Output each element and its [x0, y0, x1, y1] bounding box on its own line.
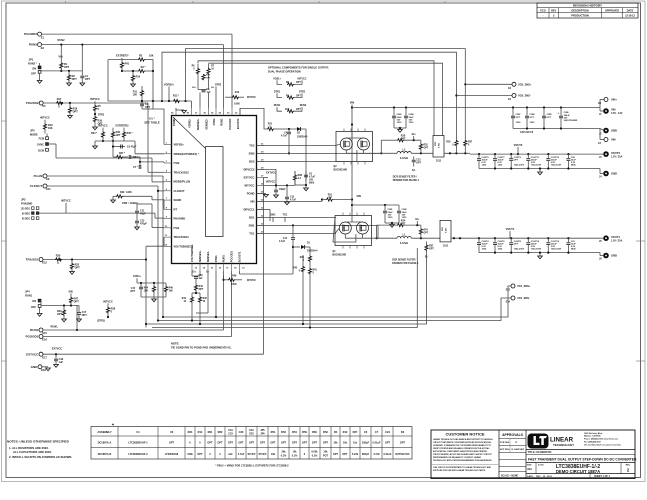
pin 35 DTR2 — [215, 108, 217, 116]
svg-text:680pF: 680pF — [362, 453, 370, 456]
wire vout2 gnd rail — [479, 168, 600, 170]
svg-text:PGND: PGND — [172, 118, 176, 126]
svg-text:RUN1: RUN1 — [50, 324, 58, 328]
resistor R36 OPT — [112, 128, 114, 132]
resistor R46 10K — [165, 283, 167, 286]
svg-text:GND: GND — [611, 129, 617, 133]
resistor R11 10K — [141, 86, 143, 90]
svg-text:DRVCC1: DRVCC1 — [243, 208, 255, 212]
svg-text:CUSTOMER NOTICE: CUSTOMER NOTICE — [445, 432, 484, 437]
capacitor COUT9 — [510, 154, 512, 158]
ground C10 — [285, 202, 290, 205]
pin 37 SENSE2+ — [199, 108, 201, 116]
svg-text:R34 *: R34 * — [91, 132, 97, 135]
capacitor C5 47pF — [118, 146, 125, 148]
svg-text:D3: D3 — [401, 430, 405, 434]
svg-text:0.1%: 0.1% — [312, 455, 318, 458]
svg-text:4.7uF: 4.7uF — [309, 176, 316, 179]
pin 6 CLKOUT — [164, 190, 172, 192]
wire TRACKSS1 — [43, 259, 146, 261]
wire bus W1 VO2 SNS+ — [186, 49, 466, 140]
svg-text:SENSE1+: SENSE1+ — [198, 250, 202, 262]
diode D1 CMDSH-4 — [301, 245, 305, 249]
svg-text:10k: 10k — [271, 453, 276, 456]
diode D2 CMDSH-4 — [297, 127, 301, 131]
svg-text:C7: C7 — [375, 430, 379, 434]
resistor R37b OPT — [426, 242, 428, 245]
svg-text:Fax: (408)434-0507: Fax: (408)434-0507 — [584, 441, 601, 444]
svg-text:APPLICATION. COMPONENT SUBSTI: APPLICATION. COMPONENT SUBSTITUTION AND … — [433, 450, 488, 453]
svg-text:LT6004HS8: LT6004HS8 — [165, 453, 179, 456]
svg-text:OPT: OPT — [57, 313, 63, 316]
svg-text:EXTVCC: EXTVCC — [26, 352, 39, 356]
pin 12 VOUTSENSE1+ — [164, 245, 172, 247]
resistor R7 10 — [208, 64, 210, 68]
pin 8 RT — [164, 208, 172, 210]
svg-text:R46: R46 — [169, 286, 174, 289]
svg-text:ASSEMBLY: ASSEMBLY — [97, 430, 111, 434]
svg-text:C22: C22 — [416, 159, 421, 161]
svg-text:OPT: OPT — [292, 441, 298, 444]
pin 7 SGND — [164, 199, 172, 201]
svg-text:R35: R35 — [446, 141, 451, 143]
svg-text:TRA/SS1: TRA/SS1 — [26, 258, 39, 262]
wire TG2 — [257, 144, 337, 146]
svg-text:DIVIDER FOR PHASE 1: DIVIDER FOR PHASE 1 — [392, 262, 419, 265]
zone tick top — [65, 1, 67, 3]
terminal VOUT1 — [600, 237, 603, 239]
capacitor CIN1 22uF — [384, 205, 386, 211]
ground R49 — [62, 319, 67, 322]
svg-text:S1+: S1+ — [415, 219, 420, 221]
svg-text:OPT: OPT — [116, 134, 121, 137]
svg-text:PRODUCTION: PRODUCTION — [571, 13, 589, 17]
svg-text:OPT: OPT — [514, 244, 519, 246]
resistor R20 — [55, 258, 62, 261]
wire SW1 — [257, 224, 294, 226]
svg-text:INTVCC: INTVCC — [103, 299, 113, 303]
svg-text:R37: R37 — [429, 245, 434, 247]
svg-text:4.7uF: 4.7uF — [281, 134, 288, 137]
svg-text:R26: R26 — [300, 257, 305, 259]
svg-text:APPROVALS: APPROVALS — [502, 433, 524, 437]
svg-text:INTVCC: INTVCC — [247, 96, 256, 99]
svg-text:1210: 1210 — [388, 217, 394, 219]
svg-text:E13: E13 — [506, 289, 511, 292]
svg-text:E15: E15 — [42, 331, 47, 335]
svg-text:U1: U1 — [136, 430, 140, 434]
wire DRVCC1 — [257, 208, 271, 210]
capacitor CIN7 OPT — [512, 108, 514, 116]
svg-text:S1-: S1- — [425, 257, 429, 259]
svg-text:1210: 1210 — [409, 122, 415, 124]
svg-text:R44: R44 — [144, 286, 149, 289]
ground C1 — [80, 83, 85, 86]
capacitor C22 OPT — [413, 157, 415, 160]
svg-text:INTVCC: INTVCC — [247, 279, 256, 282]
resistor R2 OPT — [68, 71, 70, 75]
capacitor C4 4.7uF boost2 — [287, 128, 306, 130]
pin 4 TRACK/SS2 — [164, 171, 172, 173]
svg-text:PGOOD2: PGOOD2 — [228, 118, 232, 130]
svg-text:R15: R15 — [285, 109, 290, 111]
capacitor C1 OPT — [81, 45, 83, 76]
svg-text:DIVIDER FOR PHASE 2: DIVIDER FOR PHASE 2 — [393, 179, 420, 182]
svg-text:EXTREFD2: EXTREFD2 — [115, 125, 129, 128]
svg-text:OFF: OFF — [31, 306, 36, 309]
svg-text:10K: 10K — [169, 290, 174, 292]
svg-text:EXTVCC: EXTVCC — [266, 172, 276, 175]
svg-text:TRACK/SS2: TRACK/SS2 — [174, 170, 190, 174]
svg-text:* PIN 2 = VRNG FOR LTC3838-1,: * PIN 2 = VRNG FOR LTC3838-1, EXTVREF2 F… — [215, 464, 289, 468]
pin 2 VRNG(EXTVREF2) * — [164, 153, 172, 155]
capacitor C9 1uF — [275, 187, 277, 190]
svg-text:PGND: PGND — [247, 192, 255, 196]
svg-text:SW1: SW1 — [270, 214, 276, 217]
capacitor C18 1uF — [55, 354, 57, 358]
svg-text:PGOOD1: PGOOD1 — [25, 335, 38, 339]
svg-text:RUN2: RUN2 — [57, 38, 65, 42]
ground C9 — [274, 195, 279, 198]
svg-text:DTR1: DTR1 — [214, 255, 218, 262]
svg-text:16SVP180MX: 16SVP180MX — [564, 120, 578, 122]
svg-text:EXTREF2*: EXTREF2* — [116, 53, 129, 57]
svg-text:0.47uH: 0.47uH — [400, 157, 408, 160]
svg-text:1uF: 1uF — [228, 453, 233, 456]
svg-text:S2+: S2+ — [412, 134, 417, 136]
approvals box — [525, 430, 527, 479]
svg-text:1.5V / 25A: 1.5V / 25A — [611, 240, 623, 243]
svg-text:OPT: OPT — [64, 66, 70, 69]
ground R14 — [131, 84, 136, 87]
pin 15 SENSE1- — [207, 264, 209, 272]
svg-text:OPT: OPT — [342, 453, 348, 456]
wire PGOOD1 — [43, 336, 232, 338]
pin 11 TRACK/SS1 — [164, 236, 172, 238]
svg-text:CIRCUIT BOARD LAYOUT MAY SIGNI: CIRCUIT BOARD LAYOUT MAY SIGNIFICANTLY A… — [433, 453, 493, 456]
svg-text:C23: C23 — [228, 433, 233, 436]
connector E13 VO1_SNS+ — [511, 284, 515, 288]
wire VIN horizontal — [352, 107, 600, 109]
resistor R17 — [56, 101, 63, 104]
svg-text:OPT: OPT — [228, 441, 234, 444]
svg-text:1.2V / 25A: 1.2V / 25A — [611, 155, 623, 158]
svg-text:4.5V - 14V: 4.5V - 14V — [611, 112, 623, 115]
svg-text:RUN1: RUN1 — [222, 255, 226, 263]
resistor R45 10 — [199, 293, 201, 297]
svg-text:VOUT2: VOUT2 — [514, 143, 523, 147]
resistor R24 OPT dcr filter1 — [376, 225, 378, 238]
svg-text:OPT: OPT — [197, 453, 203, 456]
svg-text:SHEET 1 OF 1: SHEET 1 OF 1 — [594, 475, 611, 478]
svg-text:10k: 10k — [333, 441, 338, 444]
svg-text:R17: R17 — [57, 98, 62, 101]
svg-text:TRACK/SS1: TRACK/SS1 — [174, 235, 190, 239]
svg-text:VIN-: VIN- — [611, 138, 616, 142]
svg-text:ON: ON — [32, 300, 36, 303]
svg-text:7343-D10T: 7343-D10T — [551, 164, 562, 167]
wire VIN pin — [257, 200, 323, 202]
svg-text:E16: E16 — [42, 338, 47, 342]
svg-text:0.01uF: 0.01uF — [373, 441, 381, 444]
svg-text:JP6: JP6 — [260, 433, 265, 436]
svg-text:SCALE = NONE: SCALE = NONE — [501, 474, 519, 477]
terminal VIN — [599, 108, 601, 112]
capacitor CIN8 — [526, 108, 528, 116]
inductor L1 0.47uH — [397, 236, 411, 238]
ground VRNG — [93, 146, 98, 149]
svg-text:4.7uF: 4.7uF — [279, 240, 286, 243]
svg-text:4.7nF: 4.7nF — [373, 453, 380, 456]
svg-text:R4: R4 — [334, 430, 338, 434]
svg-text:OPT: OPT — [333, 453, 339, 456]
svg-text:COUT4: COUT4 — [482, 240, 490, 243]
svg-text:VIN: VIN — [611, 108, 616, 112]
transistor Q2 BSC0911ND dual MOSFET phase2 — [336, 132, 373, 162]
pin 3 ITH2 — [164, 162, 172, 164]
svg-text:SEE TABLE: SEE TABLE — [144, 120, 160, 124]
svg-text:LTC3838EUHF-2: LTC3838EUHF-2 — [128, 453, 148, 456]
zone tick left — [2, 120, 7, 122]
ground C6 — [304, 188, 309, 191]
svg-text:INTVCC: INTVCC — [90, 98, 100, 101]
ground vout1 bank — [538, 256, 543, 259]
wire EXTVCC — [43, 353, 264, 355]
svg-text:12-18-12: 12-18-12 — [625, 14, 635, 17]
svg-text:REV: REV — [551, 9, 556, 12]
svg-text:OPT: OPT — [516, 117, 521, 119]
capacitor C21 — [567, 238, 569, 242]
svg-text:IC NO.: IC NO. — [538, 465, 545, 467]
svg-text:SENSE2-: SENSE2- — [204, 118, 208, 129]
svg-text:FAST TRANSIENT DUAL OUTPUT STE: FAST TRANSIENT DUAL OUTPUT STEP-DOWN DC-… — [528, 458, 637, 462]
connector VIN- aux — [599, 129, 601, 140]
ground CIN1 CIN2 — [385, 222, 399, 224]
svg-text:DTR2: DTR2 — [212, 118, 216, 125]
capacitor COUT4 — [478, 238, 480, 242]
title block outline — [431, 430, 635, 479]
svg-text:DEC - 18 - 2012: DEC - 18 - 2012 — [536, 476, 553, 478]
svg-text:SIZE: SIZE — [527, 465, 532, 467]
svg-text:OPT: OPT — [424, 232, 429, 234]
svg-text:R62: R62 — [218, 430, 223, 434]
capacitor CIN5 OPT — [543, 108, 545, 116]
capacitor COUT10 — [527, 238, 529, 242]
resistor R18 OPT — [69, 103, 71, 107]
svg-text:CMDSH-4: CMDSH-4 — [297, 135, 308, 138]
svg-text:VERIFY PROPER AND RELIABLE OPE: VERIFY PROPER AND RELIABLE OPERATION IN … — [433, 447, 490, 450]
svg-text:R59: R59 — [302, 430, 307, 434]
pin 30 SW2 — [257, 152, 265, 154]
svg-text:OPT: OPT — [169, 441, 175, 444]
svg-text:4.7uF: 4.7uF — [238, 453, 245, 456]
svg-text:DCR SENSE FILTER /: DCR SENSE FILTER / — [393, 175, 417, 178]
svg-text:100K: 100K — [234, 103, 240, 106]
pin 27 EXTVCC — [257, 176, 265, 178]
pin 10 ITH1 — [164, 227, 172, 229]
svg-text:REVISION HISTORY: REVISION HISTORY — [573, 4, 603, 8]
ground C17 — [77, 319, 82, 322]
capacitor C7 — [139, 162, 141, 166]
svg-text:ITH1: ITH1 — [174, 226, 180, 230]
svg-text:OPT: OPT — [424, 147, 429, 149]
capacitor CIN2 22uF — [398, 205, 400, 211]
svg-text:10K: 10K — [149, 55, 154, 58]
svg-text:VOUT2: VOUT2 — [611, 151, 620, 155]
svg-text:DTR1: DTR1 — [274, 90, 281, 93]
wire bus B2 — [158, 298, 511, 321]
svg-text:CMDSH-4: CMDSH-4 — [307, 249, 318, 252]
svg-text:7343-D10T: 7343-D10T — [514, 248, 525, 251]
svg-text:PHASMD: PHASMD — [174, 217, 186, 221]
svg-text:TRA/SS2: TRA/SS2 — [26, 101, 39, 105]
svg-text:DTR2: DTR2 — [299, 90, 306, 93]
svg-text:ITH2: ITH2 — [174, 161, 180, 165]
resistor R54 OPT — [420, 225, 422, 228]
wire phase2 internals — [256, 144, 258, 146]
svg-text:RUN2: RUN2 — [300, 104, 307, 107]
svg-text:RT: RT — [174, 207, 178, 211]
pin 22 BG1 — [257, 216, 265, 218]
wire PGOOD2 — [42, 33, 232, 35]
svg-text:SUPPLIED FOR USE WITH LINEAR T: SUPPLIED FOR USE WITH LINEAR TECHNOLOGY … — [433, 469, 486, 472]
title block title rows — [526, 449, 635, 451]
svg-text:0805: 0805 — [309, 183, 315, 185]
wire bus W2 VO2 SNS- — [162, 52, 456, 140]
svg-text:INTVCC: INTVCC — [244, 184, 254, 188]
LT logo — [528, 434, 549, 449]
connector E3 VO2_SNS+ — [465, 83, 512, 85]
pin 13 VOUTSENSE1- — [191, 264, 193, 272]
svg-text:EXTVCC: EXTVCC — [244, 176, 255, 180]
wire CLKOUT to pin — [158, 190, 164, 192]
pin 16 DTR1 — [215, 264, 217, 272]
svg-text:SW2: SW2 — [249, 152, 255, 156]
svg-text:OPT: OPT — [73, 110, 79, 113]
ground R23 — [70, 272, 75, 275]
pin 9 PHASMD — [164, 218, 172, 220]
svg-text:VRNG(EXTVREF2) *: VRNG(EXTVREF2) * — [174, 152, 200, 156]
svg-text:7343-D10T: 7343-D10T — [551, 248, 562, 251]
revision history table — [537, 3, 638, 18]
svg-text:R45: R45 — [203, 297, 208, 300]
svg-text:JP4: JP4 — [25, 289, 30, 293]
svg-text:JP3: JP3 — [30, 129, 35, 133]
svg-text:R42: R42 — [182, 297, 187, 300]
svg-text:90 DEG: 90 DEG — [22, 214, 30, 216]
wire BOOST1 route — [239, 271, 241, 274]
svg-text:S2-: S2- — [211, 87, 215, 89]
svg-text:VOUT1: VOUT1 — [611, 235, 620, 239]
svg-text:0.1%: 0.1% — [281, 455, 287, 458]
resistor R40 sns1 — [302, 255, 304, 266]
pin 1 VDFB2+ — [164, 144, 172, 146]
svg-text:47pF: 47pF — [140, 213, 146, 216]
wire RUN1 jumper row — [40, 301, 42, 306]
resistor R51 3.3 — [322, 199, 326, 201]
resistor R41 sns1 — [309, 265, 311, 268]
svg-text:NOTE:: NOTE: — [171, 341, 179, 345]
svg-text:29k: 29k — [282, 451, 287, 454]
svg-text:STUFF: STUFF — [258, 453, 267, 456]
svg-text:R48: R48 — [232, 275, 237, 278]
svg-text:TG1: TG1 — [283, 214, 288, 217]
ground C12 — [135, 227, 140, 230]
svg-text:GND: GND — [611, 254, 617, 258]
svg-text:BSC0911ND: BSC0911ND — [332, 253, 346, 256]
svg-text:16V: 16V — [309, 180, 314, 182]
svg-text:LTC3838EUHF-1: LTC3838EUHF-1 — [128, 441, 148, 444]
svg-text:C16: C16 — [199, 275, 204, 277]
resistor R25 OPT — [420, 140, 422, 143]
resistor R29 OPT dcr filter — [380, 140, 382, 153]
svg-text:DUAL PHASE OPERATION: DUAL PHASE OPERATION — [268, 70, 301, 74]
svg-text:(DTR1): (DTR1) — [97, 319, 105, 322]
svg-text:1uF: 1uF — [199, 278, 204, 280]
capacitor C8 — [128, 155, 130, 159]
wire VRNG row — [95, 140, 135, 142]
svg-text:OFF: OFF — [31, 72, 36, 75]
pin 24 VIN — [257, 200, 265, 202]
pin 36 SENSE2- — [208, 108, 210, 116]
capacitor CIN4 22uF — [405, 108, 407, 116]
svg-text:7343-D10T: 7343-D10T — [531, 164, 542, 167]
svg-text:20k: 20k — [324, 451, 329, 454]
svg-text:E1: E1 — [41, 35, 45, 39]
resistor R26 — [309, 252, 311, 256]
svg-text:VIN: VIN — [58, 55, 62, 59]
svg-text:R14: R14 — [136, 75, 141, 78]
wire vout1 gnd rail — [479, 252, 600, 254]
svg-text:R60: R60 — [312, 430, 317, 434]
wire PLLIN — [47, 175, 163, 177]
transistor Q1 BSC0911ND dual MOSFET phase1 — [335, 216, 372, 246]
svg-text:C5 47pF: C5 47pF — [127, 146, 137, 149]
svg-text:INTVCC: INTVCC — [40, 116, 50, 120]
pin 14 SENSE1+ — [199, 264, 201, 272]
svg-text:C8 *: C8 * — [133, 156, 138, 159]
svg-text:RUN2 *: RUN2 * — [28, 61, 37, 65]
svg-text:R27 *: R27 * — [119, 152, 125, 155]
svg-text:0.001: 0.001 — [438, 142, 440, 148]
svg-text:C15: C15 — [131, 288, 136, 290]
wire bus W4 S2- — [209, 63, 443, 135]
svg-text:MODE: MODE — [30, 132, 38, 136]
capacitor C2 OPT — [141, 101, 143, 104]
svg-text:DRVCC2: DRVCC2 — [243, 168, 255, 172]
svg-text:470pF: 470pF — [140, 223, 147, 226]
svg-text:SENSE1-: SENSE1- — [206, 251, 210, 262]
resistor R32 0.001 sense phase2 — [433, 136, 444, 158]
svg-text:DATE:: DATE: — [527, 475, 534, 478]
svg-text:JP5: JP5 — [260, 429, 265, 432]
resistor R23 OPT — [71, 260, 73, 264]
pin 25 PGND — [257, 192, 265, 194]
ground JP1 — [37, 81, 42, 84]
svg-text:LTC Confidential-For Customer: LTC Confidential-For Customer Use Only — [584, 443, 622, 446]
svg-text:BOOST1: BOOST1 — [238, 251, 242, 262]
svg-text:INTVCC: INTVCC — [98, 125, 108, 128]
svg-text:6.65k: 6.65k — [312, 451, 319, 454]
terminal VOUT2 — [600, 153, 603, 155]
svg-text:R43: R43 — [199, 285, 204, 288]
svg-text:RUN1: RUN1 — [30, 328, 38, 332]
svg-text:OPT: OPT — [514, 159, 519, 161]
svg-text:VOS1+: VOS1+ — [133, 275, 142, 278]
svg-text:RUN2: RUN2 — [29, 43, 37, 47]
svg-text:S2-: S2- — [412, 170, 416, 172]
svg-text:DEMO CIRCUIT 1887A: DEMO CIRCUIT 1887A — [556, 469, 600, 474]
